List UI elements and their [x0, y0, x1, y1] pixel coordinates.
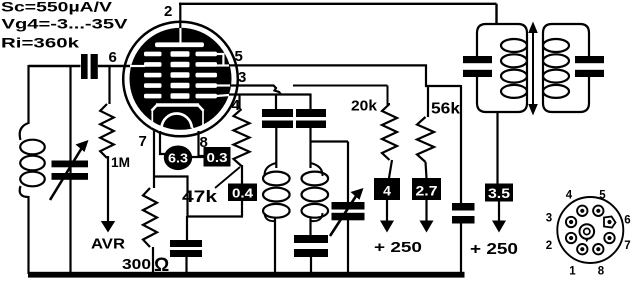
inductor T2 primary outline — [477, 24, 527, 112]
wire T1 primary to bus — [274, 218, 276, 274]
wire left vertical antenna down to coil — [27, 65, 29, 124]
tube V1 anode lead to pin 2 (white) — [179, 27, 181, 43]
arrow below 3.5-box to +250 — [492, 202, 506, 233]
wire top horizontal to transformer — [179, 4, 497, 25]
inductor L1 antenna coil — [20, 123, 45, 197]
svg-text:AVR: AVR — [91, 237, 126, 253]
tube V1 grid lead to pin 6 (white) — [130, 65, 145, 67]
wire C5 down to T1 secondary — [309, 128, 311, 168]
capacitor C6 padder plates — [294, 235, 328, 257]
wire C4 down to oscillator coil — [275, 128, 277, 168]
tube V1 screen bracket to pin 5 (white) — [216, 53, 232, 67]
svg-text:6.3: 6.3 — [168, 151, 188, 166]
capacitor C8 plates — [452, 203, 475, 224]
inductor T2 primary loops — [501, 39, 527, 98]
svg-text:3: 3 — [546, 213, 552, 225]
svg-text:1M: 1M — [111, 154, 130, 170]
svg-text:6: 6 — [109, 49, 117, 66]
svg-text:2.7: 2.7 — [416, 183, 438, 199]
resistor R1 1M — [100, 104, 114, 158]
svg-text:2: 2 — [164, 3, 172, 20]
capacitor C4 plates — [262, 109, 293, 128]
wire decoupling branch — [460, 85, 462, 203]
svg-text:20k: 20k — [351, 99, 378, 115]
socket pin numbers — [546, 190, 631, 278]
resistor R5 56k — [417, 117, 434, 162]
arrow below 2.7-box to +250 — [420, 200, 434, 233]
wire C7 to bus — [347, 220, 349, 274]
wire T1 secondary to cap C6 — [309, 218, 311, 236]
svg-text:Ri=360k: Ri=360k — [1, 35, 79, 51]
capacitor C2 variable plates — [52, 161, 89, 180]
inductor T1 secondary winding — [302, 163, 329, 221]
tube V1 envelope outer circle — [123, 22, 238, 137]
capacitor C3 cathode bypass plates — [170, 240, 202, 257]
ground bus (chassis) thick line — [28, 272, 465, 278]
wire drop to grid cap C5 — [309, 94, 311, 111]
svg-text:Vg4=-3...-35V: Vg4=-3...-35V — [2, 16, 129, 32]
tube V1 anode top bar (white) — [155, 42, 204, 47]
wire pin 4 to grid caps — [229, 93, 311, 95]
tube V1 grid electrode dashes (white) — [144, 51, 217, 98]
wire pin6 node down to resistor 1M — [108, 67, 110, 104]
capacitor C1 coupling cap plates — [81, 54, 98, 79]
svg-text:+ 250: + 250 — [374, 239, 422, 256]
wire 300ohm to bus — [152, 247, 154, 274]
tube V1 cathode (white trapezoid) — [152, 105, 204, 128]
wire pin 7 heater lead — [160, 131, 165, 154]
wire pin 5 right — [229, 65, 461, 86]
inductor T2 secondary loops — [543, 39, 569, 98]
capacitor C10 plates (secondary tuning) — [575, 56, 604, 77]
svg-text:0.3: 0.3 — [207, 150, 228, 165]
capacitor C9 plates (primary tuning) — [463, 56, 492, 77]
wire 47k down through 0.4 box — [241, 165, 243, 217]
wire T2 primary bottom to supply — [496, 112, 498, 184]
wire pin 3 with jog — [230, 86, 281, 95]
tube V1 heater leads (white) — [159, 127, 196, 132]
current label box 2.7 — [412, 178, 441, 200]
svg-text:7: 7 — [139, 133, 147, 150]
tube socket base view — [557, 197, 623, 263]
svg-text:4: 4 — [383, 183, 391, 199]
svg-text:0.4: 0.4 — [232, 186, 254, 201]
tube V1 grid lead to pin 4 (white) — [216, 95, 230, 96]
variable coupling double arrow — [528, 22, 538, 116]
wire pin 4 stub to 47k — [238, 95, 240, 110]
arrow to AVR line — [101, 156, 115, 233]
wire cathode junction right — [153, 177, 243, 217]
arrow below 4-box to +250 — [380, 200, 394, 233]
wire C3 to bus — [185, 257, 187, 274]
wire branch to variable cap C7 — [310, 142, 348, 204]
capacitor C7 variable plates — [332, 202, 365, 220]
wire pin 8 heater lead — [199, 131, 205, 156]
wire 56k stub from pin5 line — [427, 86, 429, 117]
wire pin3 line down to 20k — [388, 86, 391, 105]
wire variable cap C2 vertical branch — [69, 65, 71, 274]
svg-text:3.5: 3.5 — [488, 186, 511, 201]
svg-text:300: 300 — [122, 257, 151, 273]
svg-text:7: 7 — [624, 240, 630, 252]
wire pin 3 continuation to 20k — [293, 85, 388, 87]
svg-text:5: 5 — [235, 48, 243, 65]
arrow through C7 (variable marker) — [330, 188, 364, 236]
wire pin 2 up — [179, 3, 181, 28]
heater rating box 0.3 — [204, 147, 231, 167]
wire ellipse to 0.3 box — [192, 156, 204, 158]
tube V1 grid lead to pin 3 (white) — [216, 84, 232, 86]
tube V1 heater arc (white) — [162, 114, 192, 128]
inductor T2 secondary outline — [543, 24, 589, 112]
inductor T1 primary winding — [263, 163, 290, 221]
resistor R3 300ohm — [143, 188, 157, 247]
svg-text:5: 5 — [599, 190, 606, 202]
wire coil bottom to ground bus — [27, 196, 29, 274]
svg-text:+ 250: + 250 — [470, 241, 518, 258]
svg-text:2: 2 — [546, 240, 552, 252]
svg-text:56k: 56k — [431, 101, 460, 118]
wire cathode down — [153, 131, 155, 188]
wire drop to grid cap C4 — [275, 95, 277, 111]
svg-text:Sc=550µA/V: Sc=550µA/V — [1, 0, 113, 15]
wire 56k to 2.7-box — [426, 162, 427, 178]
wire 20k to 4-box — [389, 160, 392, 178]
svg-text:8: 8 — [598, 266, 605, 278]
current label box 0.4 — [228, 184, 257, 202]
svg-text:4: 4 — [566, 190, 573, 202]
svg-text:3: 3 — [238, 69, 246, 86]
pointer line from 47k label — [215, 167, 240, 188]
arrow through C2 (variable marker) — [50, 140, 89, 200]
wire junction down to cathode cap C3 — [186, 216, 188, 241]
heater rating ellipse 6.3 — [164, 146, 192, 171]
current label box 4 — [374, 178, 400, 200]
wire cap C1 to tube pin 6 — [98, 65, 131, 67]
wire top-left horizontal to coupling cap — [29, 65, 81, 67]
svg-text:6: 6 — [624, 215, 630, 227]
current label box 3.5 — [485, 184, 513, 202]
wire C6 to bus — [310, 257, 312, 274]
svg-text:1: 1 — [569, 266, 576, 278]
resistor R2 47k — [234, 109, 250, 166]
wire C8 to bus end — [460, 223, 462, 274]
resistor R4 20k — [382, 104, 397, 160]
tube V1 inner black disc — [130, 28, 232, 130]
capacitor C5 plates — [296, 109, 326, 128]
